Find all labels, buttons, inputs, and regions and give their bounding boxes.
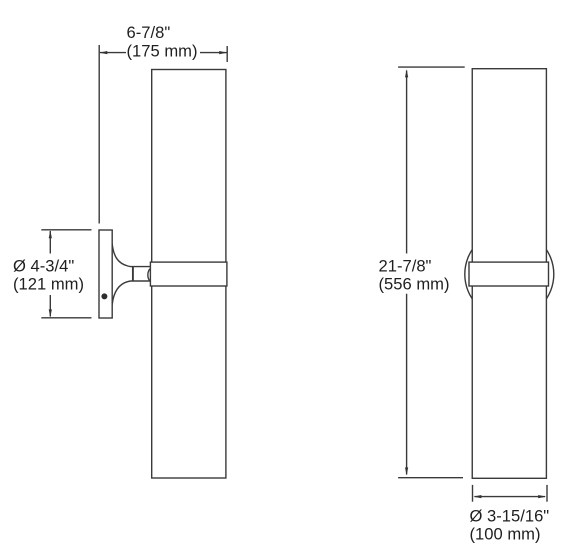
svg-text:(121 mm): (121 mm) <box>13 275 84 294</box>
svg-text:(556 mm): (556 mm) <box>379 275 450 294</box>
svg-text:(100 mm): (100 mm) <box>470 524 541 543</box>
svg-text:(175 mm): (175 mm) <box>127 42 198 61</box>
svg-text:Ø 3-15/16": Ø 3-15/16" <box>470 506 550 525</box>
svg-text:Ø 4-3/4": Ø 4-3/4" <box>13 256 74 275</box>
svg-text:21-7/8": 21-7/8" <box>379 257 432 276</box>
svg-text:6-7/8": 6-7/8" <box>127 23 171 42</box>
